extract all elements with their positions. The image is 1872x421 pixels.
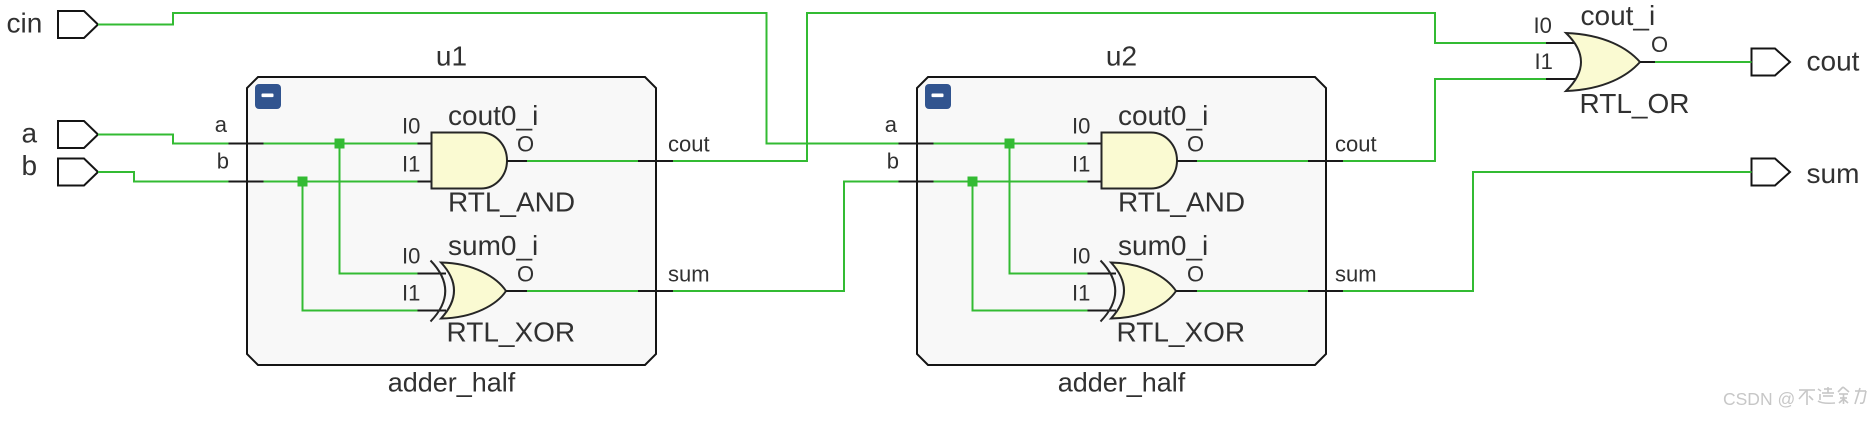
input port a [58,121,98,148]
wire u1 b to xor I1 [303,182,418,311]
and gate u2 cout0_i [1102,133,1178,189]
xor gate u2 sum0_i [1111,263,1176,319]
label u2 RTL_AND [1118,187,1245,218]
module u1 collapse icon [255,84,281,109]
pin label u2 cout [1335,132,1377,157]
module u2 box [917,77,1326,365]
wire net u1.sum to u2.b [673,182,899,292]
wire u1 internal b rail [264,181,418,183]
port label cin [7,8,43,39]
svg-text:a: a [22,118,38,149]
wire u1 a to xor I0 [340,144,418,274]
junction u2 b [968,177,978,187]
watermark glyph yi [1818,387,1835,403]
svg-text:a: a [885,112,898,137]
and gate u1 cout0_i [432,133,508,189]
pin label u2 and I1 [1072,152,1090,177]
output port cout [1752,49,1791,76]
input port b [58,159,98,186]
input port cin [58,11,98,38]
label adder_half u1 [388,368,516,398]
pin stub u2 and I0 [1088,143,1103,145]
label adder_half u2 [1058,368,1186,398]
port label cout [1807,46,1860,77]
wire u2 internal b rail [934,181,1088,183]
svg-text:RTL_AND: RTL_AND [1118,187,1245,218]
pin stub or I0 [1546,42,1578,44]
pin stub u2 and O [1177,160,1197,162]
junction u1 b [298,177,308,187]
watermark CSDN [1723,389,1795,409]
wire u2 cout inside [1197,160,1308,162]
svg-text:sum: sum [668,262,710,287]
svg-text:I0: I0 [402,244,420,269]
svg-text:RTL_AND: RTL_AND [448,187,575,218]
pin stub u1.sum [638,290,673,292]
svg-text:I1: I1 [402,281,420,306]
pin stub u2.a [899,143,934,145]
label u1 [436,41,467,72]
pin stub u1 xor O [506,290,527,292]
svg-text:sum: sum [1335,262,1377,287]
pin stub u2 xor I1 [1088,310,1117,312]
svg-text:b: b [22,150,38,181]
svg-text:cout: cout [1335,132,1377,157]
pin label or O [1651,32,1668,57]
pin stub u2.b [899,181,934,183]
label u1 RTL_AND [448,187,575,218]
wire u1 cout inside [527,160,638,162]
svg-text:cout0_i: cout0_i [448,100,538,131]
pin label u1 sum [668,262,710,287]
pin label u1 and I0 [402,114,420,139]
svg-text:sum0_i: sum0_i [1118,230,1208,261]
svg-text:RTL_XOR: RTL_XOR [1117,317,1246,348]
svg-text:sum: sum [1807,158,1860,189]
svg-text:b: b [887,149,899,174]
label u2 cout0_i [1118,100,1208,131]
pin label u2 sum [1335,262,1377,287]
wire net cin to u2.a [98,13,899,144]
wire net u2.sum to sum port [1343,172,1752,291]
pin stub u2.sum [1308,290,1343,292]
pin label u1 a [215,112,228,137]
pin stub u1 and I1 [418,181,433,183]
pin stub u1 xor I0 [418,273,447,275]
watermark glyph li [1855,388,1866,404]
svg-text:cin: cin [7,8,43,39]
label u1 cout0_i [448,100,538,131]
module u1 box [247,77,656,365]
output port sum [1752,159,1791,186]
svg-text:sum0_i: sum0_i [448,230,538,261]
watermark glyph yu [1838,387,1849,404]
junction u2 a [1005,139,1015,149]
pin label u2 xor I1 [1072,281,1090,306]
pin label or I0 [1534,13,1552,38]
svg-text:I1: I1 [402,152,420,177]
wire net u1.cout to or I0 [673,13,1546,161]
svg-text:cout: cout [668,132,710,157]
module u2 collapse icon [925,84,951,109]
wire net u2.cout to or I1 [1343,79,1546,161]
svg-text:I0: I0 [402,114,420,139]
pin label u2 b [887,149,899,174]
pin label u2 and O [1187,132,1204,157]
svg-text:I1: I1 [1072,152,1090,177]
pin label u1 b [217,149,229,174]
pin label u1 and O [517,132,534,157]
wire u2 internal a rail [934,143,1088,145]
svg-text:I0: I0 [1534,13,1552,38]
svg-text:I0: I0 [1072,114,1090,139]
pin label u1 xor O [517,262,534,287]
wire u1 sum inside [527,290,638,292]
svg-text:cout_i: cout_i [1581,0,1656,31]
svg-text:RTL_XOR: RTL_XOR [447,317,576,348]
svg-text:O: O [1187,262,1204,287]
svg-text:adder_half: adder_half [388,368,516,398]
pin stub u2 xor I0 [1088,273,1117,275]
svg-text:u2: u2 [1106,41,1137,72]
svg-text:I0: I0 [1072,244,1090,269]
svg-text:O: O [1187,132,1204,157]
pin stub u2 xor O [1176,290,1197,292]
pin label u2 and I0 [1072,114,1090,139]
svg-text:a: a [215,112,228,137]
svg-text:O: O [517,132,534,157]
port label sum [1807,158,1860,189]
label u1 sum0_i [448,230,538,261]
svg-text:O: O [517,262,534,287]
pin stub or O [1640,61,1655,63]
wire or O to cout port [1655,61,1752,63]
svg-text:O: O [1651,32,1668,57]
pin stub u1 and I0 [418,143,433,145]
port label a [22,118,38,149]
pin stub u2.cout [1308,160,1343,162]
wire u1 internal a rail [264,143,418,145]
pin label u2 xor I0 [1072,244,1090,269]
svg-text:I1: I1 [1535,49,1553,74]
pin label u2 a [885,112,898,137]
pin stub u2 and I1 [1088,181,1103,183]
pin label u1 xor I1 [402,281,420,306]
svg-text:cout: cout [1807,46,1860,77]
pin stub u1.b [229,181,264,183]
pin stub u1 and O [507,160,527,162]
pin label u2 xor O [1187,262,1204,287]
label u2 [1106,41,1137,72]
label u2 sum0_i [1118,230,1208,261]
pin stub u1.cout [638,160,673,162]
svg-text:u1: u1 [436,41,467,72]
label u1 RTL_XOR [447,317,576,348]
xor gate u1 sum0_i [441,263,506,319]
pin label u1 and I1 [402,152,420,177]
wire u2 sum inside [1197,290,1308,292]
pin stub u1 xor I1 [418,310,447,312]
label cout_i [1581,0,1656,31]
svg-text:I1: I1 [1072,281,1090,306]
watermark glyph bu [1799,390,1815,405]
svg-text:adder_half: adder_half [1058,368,1186,398]
svg-text:RTL_OR: RTL_OR [1580,88,1690,119]
label u2 RTL_XOR [1117,317,1246,348]
port label b [22,150,38,181]
xor gate u1 sum0_i outer arc [431,261,446,322]
wire u2 b to xor I1 [973,182,1088,311]
xor gate u2 sum0_i outer arc [1101,261,1116,322]
pin label or I1 [1535,49,1553,74]
svg-text:b: b [217,149,229,174]
pin stub u1.a [229,143,264,145]
pin stub or I1 [1546,78,1578,80]
pin label u1 xor I0 [402,244,420,269]
svg-text:cout0_i: cout0_i [1118,100,1208,131]
junction u1 a [335,139,345,149]
or gate cout_i [1566,33,1640,91]
svg-text:CSDN @: CSDN @ [1723,389,1795,409]
wire net b to u1.b [98,172,229,182]
label RTL_OR [1580,88,1690,119]
pin label u1 cout [668,132,710,157]
wire net a to u1.a [98,135,229,144]
wire u2 a to xor I0 [1010,144,1088,274]
